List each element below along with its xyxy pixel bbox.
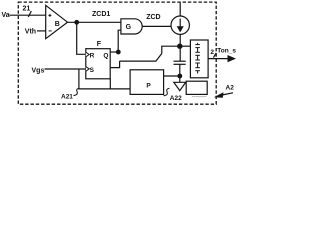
- pin 2 slash tick: [213, 53, 216, 58]
- wire Vth input: [37, 30, 46, 32]
- svg-text:P: P: [146, 82, 151, 89]
- pin Q label: [103, 52, 108, 59]
- block P label: [146, 82, 151, 89]
- node A22 label: [170, 95, 182, 102]
- wire Ton_s output: [208, 58, 229, 60]
- node A2 leader arrow: [222, 93, 233, 95]
- wire switch to control corner: [120, 60, 157, 62]
- node Vth label: [25, 29, 36, 36]
- svg-text:F: F: [97, 41, 102, 48]
- current source I1: [171, 16, 189, 34]
- node ZCD label: [146, 14, 160, 21]
- node A2 label: [226, 85, 235, 92]
- wire Vgs to S input: [45, 68, 86, 70]
- op-amp B label: [55, 21, 60, 28]
- svg-text:B: B: [55, 21, 60, 28]
- op-amp U1 comparator B: [46, 5, 68, 38]
- wire control corner down and to flip-flop: [110, 61, 119, 68]
- IC boundary dashed box: [18, 2, 216, 104]
- wire Q output: [110, 51, 118, 53]
- faint line under lower block: [192, 96, 206, 98]
- wire P block to cap bottom node: [164, 75, 180, 77]
- logic gate G (AND shape): [121, 19, 142, 34]
- block lower right: [186, 81, 207, 94]
- switch SW1 blade: [156, 54, 162, 62]
- pin 2 label: [210, 49, 214, 56]
- wire G output ZCD to current source: [142, 25, 171, 27]
- svg-text:A2: A2: [226, 85, 235, 92]
- pin S wedge: [86, 67, 89, 72]
- flip-flop F label: [97, 41, 102, 48]
- wire Ton_s arrow head: [228, 55, 237, 62]
- wire ZCD1 branch down to bottom bus: [79, 69, 130, 89]
- node A21 leader squiggle: [74, 88, 80, 95]
- node Vgs label: [32, 67, 45, 74]
- flip-flop F box: [86, 49, 110, 79]
- node A22 leader squiggle: [164, 88, 170, 96]
- svg-text:Vgs: Vgs: [32, 67, 45, 74]
- wire node to block input: [180, 45, 190, 47]
- svg-text:ZCD1: ZCD1: [92, 11, 110, 18]
- pin R label: [90, 53, 95, 60]
- svg-text:Va: Va: [2, 12, 10, 19]
- node ZCD1 label: [92, 11, 110, 18]
- svg-text:Vth: Vth: [25, 29, 36, 36]
- capacitor C2 of bank: [197, 43, 199, 74]
- svg-text:A21: A21: [61, 94, 73, 101]
- current source arrow head: [177, 26, 184, 32]
- ground: [174, 82, 186, 90]
- pin R wedge: [86, 52, 89, 57]
- wire ZCD1 to R input: [77, 22, 86, 54]
- wire comparator output ZCD1: [68, 21, 121, 23]
- wire Q up to gate G second input: [118, 30, 121, 52]
- svg-text:21: 21: [23, 6, 31, 13]
- pin S label: [90, 67, 95, 74]
- node junction dot cap bottom: [177, 74, 182, 79]
- svg-text:2: 2: [210, 49, 214, 56]
- svg-text:ZCD: ZCD: [146, 14, 160, 21]
- wire FF bottom to bus: [109, 79, 111, 89]
- wire capacitor to lower node: [179, 64, 181, 82]
- capacitor C1: [174, 61, 186, 64]
- node Ton_s label: [217, 48, 236, 55]
- node junction dot ZCD1: [74, 20, 79, 25]
- svg-text:A22: A22: [170, 95, 182, 102]
- block P: [130, 70, 164, 95]
- svg-text:G: G: [126, 24, 132, 31]
- node junction dot Q: [116, 50, 121, 55]
- svg-text:R: R: [90, 53, 95, 60]
- node junction dot ramp: [177, 44, 182, 49]
- node Va label: [2, 12, 10, 19]
- svg-text:S: S: [90, 67, 95, 74]
- pin 21 label: [23, 6, 31, 13]
- block capacitor bank: [190, 40, 208, 78]
- wire current source to node: [179, 34, 181, 61]
- gate G label: [126, 24, 132, 31]
- svg-text:Ton_s: Ton_s: [217, 48, 236, 55]
- wire node to switch: [162, 46, 180, 53]
- svg-text:Q: Q: [103, 52, 108, 59]
- node A21 label: [61, 94, 73, 101]
- wire Va input: [10, 14, 46, 16]
- wire supply to current source: [179, 2, 181, 16]
- pin 21 slash tick: [28, 11, 31, 17]
